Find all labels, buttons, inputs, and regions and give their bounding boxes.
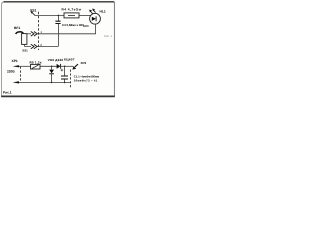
wire top rail [35, 14, 64, 16]
wire VD5 to bottom rail [51, 74, 53, 83]
diode VD5 vertical [49, 70, 54, 74]
connector pin arrow XS1 [32, 12, 35, 15]
buzzer BF1 body [22, 34, 27, 45]
wire XP1 top pin to R5 [19, 65, 31, 67]
svg-text:HL1: HL1 [100, 10, 106, 14]
connector boundary dashed line [38, 12, 40, 50]
svg-text:R5 1,2к: R5 1,2к [30, 60, 42, 64]
wire node B down to C1 [64, 66, 66, 76]
LED HL1 triangle [92, 17, 96, 21]
node dot C1/rail [64, 82, 66, 84]
plug XP1 pin arrow top [13, 65, 19, 67]
resistor R5 power mark [32, 65, 39, 69]
wire C1 to bottom rail [64, 79, 66, 82]
wire from HL1 down to node [58, 24, 96, 34]
wire VD6 to node B and out [61, 65, 73, 67]
wire C3 bottom lead down to corner [57, 24, 59, 47]
svg-text:VD6 Д226: VD6 Д226 [48, 58, 64, 62]
svg-text:Рис. 1: Рис. 1 [104, 34, 112, 38]
resistor R5 [31, 64, 41, 69]
wire bottom contact to C3 lead corner [37, 46, 59, 48]
wire C3 top lead [57, 15, 59, 21]
svg-text:30мкФх73 − 41: 30мкФх73 − 41 [74, 78, 98, 82]
resistor R4 [64, 13, 79, 18]
wire node A down [51, 66, 53, 69]
svg-text:BF1: BF1 [14, 26, 20, 30]
svg-text:КЦ407: КЦ407 [64, 57, 75, 61]
svg-text:АЛ3: АЛ3 [83, 24, 89, 28]
output arrow [75, 64, 78, 67]
LED HL1 light arrow 1 [90, 11, 93, 14]
plug XP1 boundary dashed [20, 67, 22, 82]
output boundary dashed line [70, 70, 72, 90]
node dot VD5/rail [51, 82, 53, 84]
svg-text:ХР2: ХР2 [81, 61, 87, 65]
plug XP1 pin arrow bottom [13, 81, 19, 83]
LED HL1 light arrow 2 [93, 10, 95, 13]
LED HL1 circle [90, 13, 101, 24]
capacitor C1 plates [61, 76, 68, 79]
border frame top edge [4, 1, 115, 3]
svg-text:XP1: XP1 [12, 59, 18, 63]
wire R5 to node A [40, 65, 57, 67]
LED HL1 cathode bar [95, 16, 97, 21]
svg-text:220В: 220В [7, 70, 15, 74]
capacitor C1 plus mark [61, 69, 64, 72]
border frame bottom edge [1, 95, 115, 97]
border frame right edge [113, 2, 115, 97]
connector contacts top pair [31, 32, 37, 37]
wire BF1 top pin [27, 33, 31, 35]
border frame left edge [2, 2, 5, 97]
svg-text:Рис.1: Рис.1 [3, 91, 12, 95]
diode VD6 horizontal [57, 64, 61, 69]
svg-text:XS1: XS1 [22, 49, 28, 53]
node A dot [51, 66, 53, 68]
capacitor C3 plates [55, 21, 60, 23]
wire top to crossing [37, 33, 59, 35]
connector contacts bottom pair [31, 44, 37, 49]
resistor R4 power mark [68, 14, 75, 16]
svg-text:R4 4,7кОм: R4 4,7кОм [62, 8, 82, 12]
buzzer BF1 arc [16, 32, 24, 34]
node B dot [64, 66, 66, 68]
bottom rail wire [19, 81, 70, 83]
wire top rail right of R4 [79, 14, 91, 16]
svg-text:C3 0,68мк x 400: C3 0,68мк x 400 [62, 23, 84, 27]
node dot top rail / C3 [58, 15, 60, 17]
wire BF1 bottom pin [25, 44, 32, 46]
